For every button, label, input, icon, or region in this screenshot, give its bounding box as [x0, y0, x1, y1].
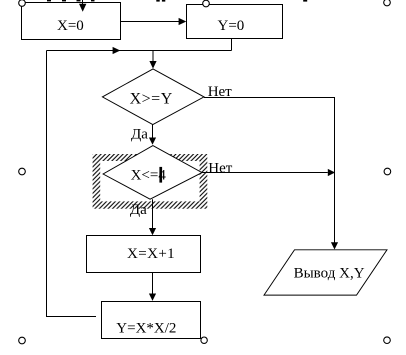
handle top-left	[19, 0, 26, 6]
wire arrow into X=0 from top	[79, 0, 86, 12]
text cursor in diamond2	[159, 167, 162, 183]
wire Net1 to output	[204, 98, 338, 250]
crop dash a1	[47, 0, 51, 1]
handle mid-right	[384, 168, 391, 175]
wire loop back from Y box	[47, 51, 97, 317]
svg-text:Y=X*X/2: Y=X*X/2	[116, 321, 176, 337]
wire Net2 join	[202, 169, 335, 176]
wire junction to diamond X>=Y	[149, 51, 156, 69]
wire Y=0 down	[231, 39, 233, 51]
svg-text:Нет: Нет	[208, 160, 232, 176]
svg-text:Да: Да	[131, 126, 148, 142]
wire loop top horizontal	[47, 47, 232, 54]
process box X=X+1	[87, 236, 201, 273]
wire X=X+1 to Y box	[149, 273, 156, 301]
svg-text:Да: Да	[130, 202, 147, 218]
handle bottom-middle	[201, 337, 207, 343]
svg-text:X>=Y: X>=Y	[130, 90, 173, 107]
svg-text:Y=0: Y=0	[218, 18, 245, 34]
process box Y=0	[187, 5, 283, 39]
svg-text:X=0: X=0	[57, 18, 84, 34]
svg-text:X=X+1: X=X+1	[127, 246, 175, 262]
hatched selection frame	[93, 154, 208, 209]
handle bottom-left	[19, 337, 26, 344]
process box Y=X*X/2	[102, 302, 201, 339]
crop dash b1	[156, 0, 159, 2]
crop dash a4	[91, 0, 95, 1]
crop dash c1	[303, 0, 307, 2]
crop dash a3	[77, 0, 81, 1]
wire X=0 to Y=0	[121, 18, 187, 25]
wire diamond2 to X=X+1	[149, 199, 156, 235]
handle top-right	[384, 0, 391, 6]
handle bottom-right	[384, 337, 391, 344]
decision diamond X<=4	[103, 146, 202, 200]
output parallelogram Vyvod X,Y	[264, 250, 387, 295]
wire diamond1 to diamond2	[149, 125, 156, 145]
handle top-middle	[203, 0, 210, 7]
crop dash a2	[62, 0, 66, 1]
svg-text:Вывод X,Y: Вывод X,Y	[294, 265, 365, 281]
decision diamond X>=Y	[102, 69, 204, 125]
crop dash b2	[162, 0, 165, 2]
process box X=0	[22, 3, 121, 40]
handle mid-left	[19, 168, 26, 175]
